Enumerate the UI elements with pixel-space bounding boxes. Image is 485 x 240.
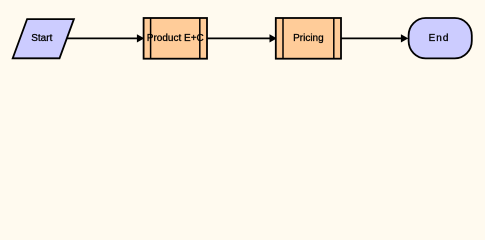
- end shape: rounded rectangle: [409, 18, 472, 58]
- svg-text:Pricing: Pricing: [293, 33, 324, 44]
- wire: connector Start to Product E+C: [66, 37, 138, 39]
- arrowhead into Product E+C: [137, 34, 144, 42]
- wire: connector Product E+C to Pricing: [207, 37, 271, 39]
- inner left bar of Pricing: [282, 18, 284, 59]
- svg-text:Product E+C: Product E+C: [147, 33, 204, 44]
- arrowhead into Pricing: [270, 34, 277, 42]
- inner right bar of Product E+C: [199, 18, 201, 59]
- arrowhead into End: [401, 34, 408, 42]
- step box: Product E+C (business service): [144, 18, 207, 59]
- wire: connector Pricing to End: [341, 37, 402, 39]
- inner right bar of Pricing: [333, 18, 335, 59]
- start shape: parallelogram: [13, 19, 74, 58]
- svg-text:End: End: [429, 33, 450, 44]
- canvas background: [0, 0, 485, 76]
- inner left bar of Product E+C: [150, 18, 152, 59]
- svg-text:Start: Start: [31, 33, 52, 44]
- step box: Pricing (business service): [276, 18, 341, 59]
